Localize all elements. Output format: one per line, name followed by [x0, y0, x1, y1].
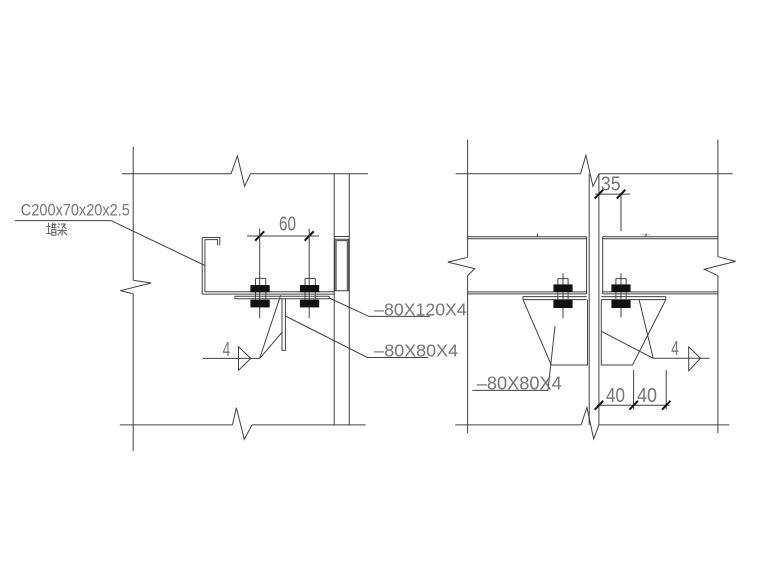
bolt B4 upper nut — [611, 284, 630, 292]
left girt lap tick — [536, 234, 538, 237]
dimension tick 1 — [595, 401, 604, 410]
extension line mid — [633, 370, 635, 410]
svg-text:40: 40 — [637, 385, 657, 407]
break symbol on top line at column — [581, 155, 599, 186]
C-girt right flange outer rectangle — [335, 239, 349, 290]
break symbol on left column edge — [120, 280, 151, 294]
dimension line 40 40 — [597, 404, 670, 406]
column flange line left — [333, 174, 335, 425]
extension line right — [665, 370, 667, 410]
bolt B2 shank outline — [305, 278, 315, 299]
seat plate -80X120X4 (edge view) — [235, 296, 329, 299]
bolt B3 shank outline — [558, 279, 568, 300]
column flange line left — [588, 174, 590, 425]
bolt B3 lower nut — [553, 300, 572, 308]
C-girt top-left lip — [202, 238, 220, 246]
top beam line (with break gap) — [122, 173, 368, 175]
dimension tick at column face — [595, 190, 604, 199]
bolt B1 lower nut — [250, 300, 269, 308]
break symbol on left edge at girt — [448, 257, 475, 275]
vertical stiffener plate -80X80X4 (edge view) — [282, 299, 285, 351]
break symbol on bottom line at column — [581, 407, 599, 439]
svg-text:–80X80X4: –80X80X4 — [374, 341, 458, 361]
girt label leader line — [15, 221, 205, 266]
break symbol on right edge at girt — [704, 257, 736, 276]
C-girt bottom web — [202, 292, 335, 294]
bolt B4 lower nut — [611, 300, 630, 308]
bolt B2 lower nut — [300, 300, 319, 308]
svg-text:–80X80X4: –80X80X4 — [477, 373, 562, 393]
dimension tick at bolt — [617, 190, 626, 199]
bolt B4 shank outline — [616, 279, 626, 300]
weld symbol leader branch to stiffener side — [260, 332, 282, 358]
bottom beam line (with break gap) — [120, 424, 366, 426]
svg-text:–80X120X4: –80X120X4 — [374, 299, 467, 319]
dimension tick 2 — [629, 401, 638, 410]
weld symbol tail line — [203, 357, 260, 359]
C-girt C200x70x20x2.5 cross-section: left flange — [202, 238, 205, 295]
column flange line right — [598, 174, 600, 425]
weld symbol flag triangle right — [689, 347, 701, 371]
top beam line (with break gap at column) — [456, 173, 733, 175]
right girt lap tick — [645, 234, 647, 237]
leader line for stiffener label — [285, 316, 428, 358]
svg-text:35: 35 — [601, 173, 621, 195]
right girt faint lap line — [641, 234, 651, 236]
bolt B1 shank outline — [256, 278, 266, 299]
bolt B2 upper nut — [300, 285, 319, 292]
C-girt right flange top cap — [334, 236, 349, 238]
left break edge line (with break gap) — [467, 140, 469, 434]
dimension line 35 — [595, 193, 630, 195]
leader line for plate label — [329, 298, 430, 316]
svg-text:40: 40 — [606, 385, 625, 407]
right girt top flange — [603, 237, 718, 239]
bolt B1 upper nut — [250, 285, 269, 292]
right seat plate edge — [601, 297, 666, 300]
bottom beam line (with break gap at column) — [455, 424, 729, 426]
bolt B4 centerline — [620, 273, 622, 317]
C-girt right flange inner rectangle — [336, 241, 347, 291]
right girt end cap at column — [602, 237, 604, 294]
dimension tick right — [305, 231, 314, 240]
gusset label leader — [472, 326, 555, 390]
right break edge line (with break gap) — [717, 140, 719, 434]
extension line from bolt — [620, 195, 622, 231]
svg-text:4: 4 — [671, 338, 679, 360]
svg-text:4: 4 — [223, 339, 231, 361]
break symbol on bottom beam line — [232, 408, 252, 440]
right girt bottom flange — [603, 292, 718, 294]
weld leader branch to gusset edge at column — [601, 331, 653, 358]
weld leader branch to gusset top — [639, 300, 653, 358]
right gusset plate — [601, 300, 666, 365]
bolt B1 centerline — [259, 229, 261, 319]
left seat plate edge — [523, 297, 587, 300]
weld symbol flag triangle — [239, 347, 251, 371]
svg-text:60: 60 — [279, 214, 296, 236]
left column edge line (with break gap) — [132, 147, 134, 452]
bolt B2 centerline — [308, 229, 310, 319]
dimension tick 3 — [662, 401, 671, 410]
dimension tick left — [255, 231, 264, 240]
left gusset plate -80X80X4 — [523, 300, 588, 365]
bolt B3 centerline — [562, 273, 564, 318]
bolt B3 upper nut — [553, 284, 572, 292]
weld symbol leader branch to plate joint — [260, 295, 281, 358]
left girt top flange — [468, 237, 587, 239]
left girt bottom flange — [468, 292, 587, 294]
girt label text 墙梁 (drawn strokes) — [46, 223, 67, 236]
dimension line 60 — [247, 235, 319, 237]
svg-text:C200x70x20x2.5: C200x70x20x2.5 — [21, 201, 130, 219]
column flange line right — [348, 174, 350, 425]
left girt end cap at column — [586, 237, 588, 294]
weld symbol tail line right — [653, 357, 710, 359]
break symbol on top beam line — [231, 156, 251, 186]
